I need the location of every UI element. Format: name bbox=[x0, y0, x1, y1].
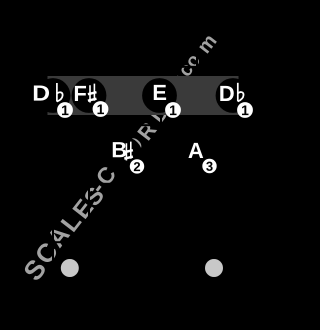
finger badge 2 on B# string3 bbox=[130, 159, 144, 173]
note circle B# string3 fret2 bbox=[108, 137, 143, 172]
flat sign of Db string1 bbox=[57, 83, 63, 102]
label F# string2 bbox=[75, 86, 86, 101]
watermark letter S5 (S) bbox=[83, 186, 105, 208]
watermark letter c14 (c) bbox=[180, 63, 194, 77]
finger badge 1 on Db string6 bbox=[237, 102, 253, 118]
watermark letter S12 (S) bbox=[161, 90, 180, 109]
sharp sign of B# bbox=[124, 142, 133, 161]
watermark letter C7 (C) bbox=[95, 165, 117, 187]
watermark letter S0 (S) bbox=[22, 258, 47, 282]
finger badge 1 on Db string1 bbox=[57, 102, 73, 118]
flat sign of Db string6 bbox=[238, 83, 244, 102]
watermark letter L3 (L) bbox=[60, 212, 81, 233]
label B# string3 bbox=[113, 142, 126, 157]
string 5 bbox=[196, 45, 198, 310]
watermark letter C1 (C) bbox=[34, 241, 59, 266]
watermark letter H8 (H) bbox=[109, 149, 129, 169]
fret line 4 bbox=[48, 300, 239, 302]
finger badge 3 on A string5 bbox=[202, 159, 216, 173]
string 4 bbox=[160, 45, 162, 310]
fret band (position highlight) bbox=[48, 76, 239, 115]
note circle Db string6 bbox=[216, 78, 251, 113]
fret line 0 bbox=[48, 66, 239, 68]
string 1 bbox=[52, 45, 54, 310]
watermark letter D11 (D) bbox=[150, 104, 169, 123]
fret line 2 bbox=[48, 183, 239, 185]
watermark letter O9 (O) bbox=[123, 135, 145, 157]
finger badge 1 on E string4 bbox=[165, 102, 181, 118]
finger badge 1 on F# string2 bbox=[93, 101, 109, 117]
note circle E string4 bbox=[142, 78, 177, 113]
watermark letter R10 (R) bbox=[137, 121, 157, 141]
inlay dot left bbox=[61, 259, 79, 277]
watermark letter dot13 (.) bbox=[176, 75, 180, 79]
watermark letter E4 (E) bbox=[72, 198, 94, 219]
string 6 bbox=[232, 45, 234, 310]
watermark letter A2 (A) bbox=[46, 224, 70, 248]
note circle Db string1 bbox=[36, 78, 71, 113]
note circle A string5 fret2 bbox=[180, 137, 215, 172]
label E string4 bbox=[154, 85, 166, 100]
watermark letter dash6 (-) bbox=[96, 185, 102, 191]
watermark letter o15 (o) bbox=[186, 54, 200, 68]
note circle F# string2 bbox=[72, 78, 107, 113]
string 2 bbox=[88, 45, 90, 310]
watermark letter m16 (m) bbox=[199, 35, 217, 54]
fret line 1 bbox=[48, 124, 239, 126]
string 3 bbox=[124, 45, 126, 310]
inlay dot right bbox=[205, 259, 223, 277]
label Db string6 bbox=[220, 86, 233, 101]
label Db string1 bbox=[34, 85, 49, 100]
label A string5 bbox=[188, 143, 203, 158]
fret line 3 bbox=[48, 241, 239, 243]
sharp sign of F# bbox=[88, 84, 97, 103]
